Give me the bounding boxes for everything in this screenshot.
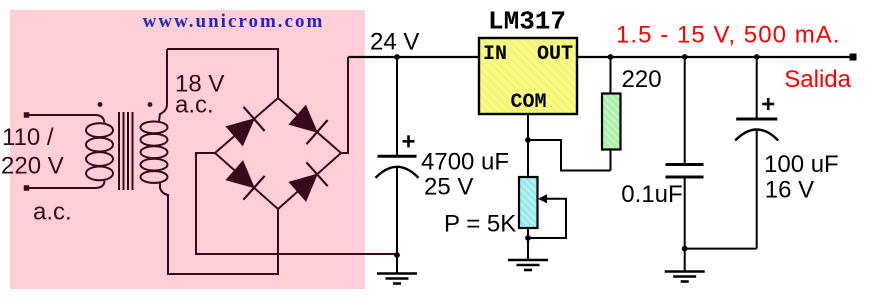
svg-text:COM: COM: [510, 91, 546, 114]
svg-text:a.c.: a.c.: [33, 199, 72, 226]
svg-text:4700 uF: 4700 uF: [421, 149, 509, 176]
svg-text:0.1uF: 0.1uF: [621, 181, 682, 208]
svg-text:220 V: 220 V: [1, 153, 64, 180]
svg-text:IN: IN: [483, 43, 507, 66]
svg-text:110 /: 110 /: [2, 124, 54, 151]
svg-text:25 V: 25 V: [424, 174, 473, 201]
svg-text:OUT: OUT: [537, 43, 573, 66]
svg-text:LM317: LM317: [488, 7, 566, 37]
svg-text:www.unicrom.com: www.unicrom.com: [143, 11, 325, 32]
svg-text:a.c.: a.c.: [175, 92, 214, 119]
svg-text:100 uF: 100 uF: [764, 151, 839, 178]
svg-text:P = 5K: P = 5K: [444, 211, 516, 238]
svg-text:16 V: 16 V: [765, 177, 814, 204]
svg-text:24 V: 24 V: [370, 29, 419, 56]
svg-text:Salida: Salida: [784, 66, 851, 93]
svg-text:220: 220: [622, 66, 662, 93]
svg-text:1.5 - 15 V, 500 mA.: 1.5 - 15 V, 500 mA.: [616, 22, 841, 49]
